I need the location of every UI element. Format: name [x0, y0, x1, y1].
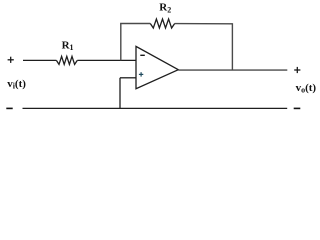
wire feedback top left segment	[120, 23, 150, 25]
wire input left segment	[23, 59, 56, 61]
resistor R1	[56, 56, 77, 64]
wire feedback right vertical down to output	[231, 23, 233, 70]
node Vi- terminal minus sign (left bottom)	[6, 107, 12, 109]
wire non-inverting input horizontal	[120, 77, 136, 79]
svg-text:vo(t): vo(t)	[296, 82, 317, 95]
node feedback tap junction / wire vertical up from inverting input	[120, 24, 122, 61]
resistor R2	[150, 19, 174, 28]
wire non-inverting input vertical down to bottom rail	[119, 78, 121, 109]
op-amp inverting input marker minus	[140, 54, 145, 56]
node Vo+ terminal plus sign (right output)	[294, 67, 300, 73]
svg-text:R2: R2	[159, 1, 171, 14]
op-amp U1 triangle	[136, 46, 178, 88]
svg-text:R1: R1	[62, 39, 74, 52]
node Vi+ terminal plus sign (left input)	[8, 57, 14, 63]
wire input right segment to op-amp inverting input	[77, 59, 136, 61]
svg-text:vi(t): vi(t)	[7, 78, 26, 91]
node Vo- terminal minus sign (right bottom)	[294, 107, 301, 109]
op-amp non-inverting input marker plus	[139, 72, 143, 76]
wire bottom rail	[23, 107, 288, 109]
wire feedback top right segment	[175, 23, 233, 25]
wire output from op-amp to right terminal (junction with feedback at x=232)	[178, 69, 287, 71]
